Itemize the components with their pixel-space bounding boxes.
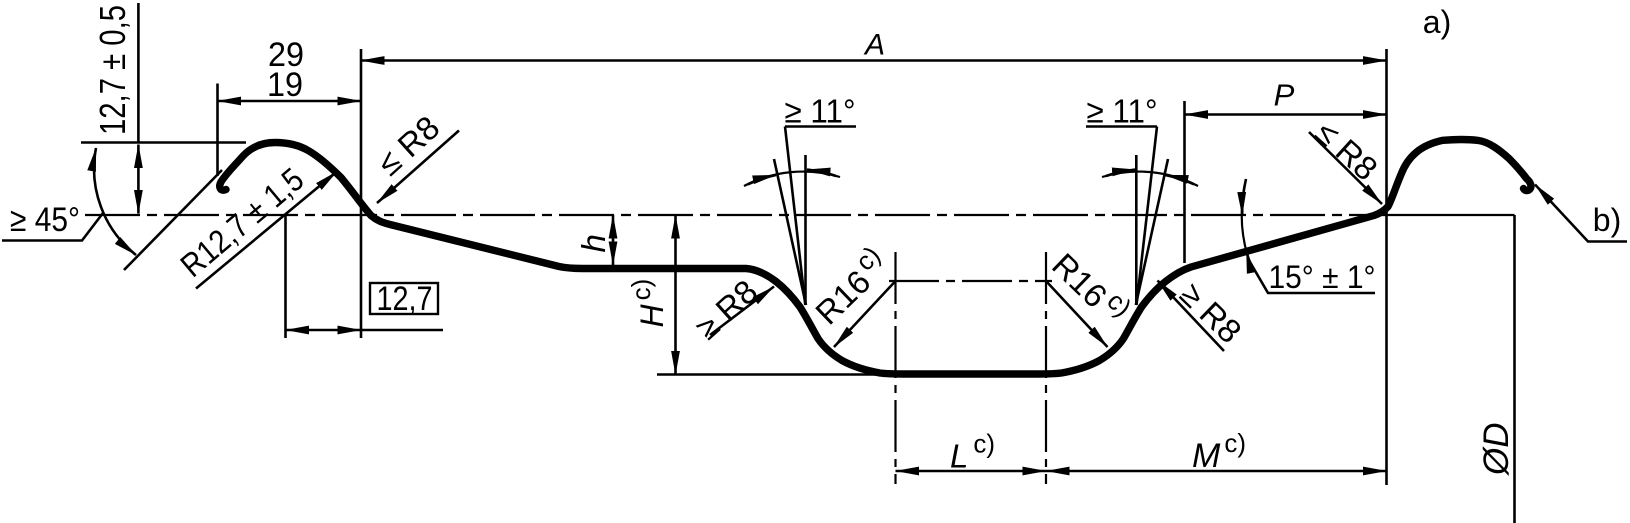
rim profile thick curve — [220, 140, 1531, 374]
svg-text:Lc): Lc) — [950, 429, 995, 475]
left >=11 vertical leg — [804, 155, 807, 305]
leader >=R8 left (well) — [710, 287, 774, 336]
right >=11 vertical leg — [1135, 155, 1138, 305]
svg-text:R16c): R16c) — [1045, 241, 1138, 333]
svg-text:12,7: 12,7 — [377, 280, 433, 318]
right extension line at rim edge x=1386.5 — [1385, 49, 1388, 485]
svg-text:Hc): Hc) — [626, 279, 670, 328]
right >=11 leader — [1137, 127, 1158, 306]
right >=11 arc — [1102, 172, 1198, 186]
svg-text:15° ± 1°: 15° ± 1° — [1269, 259, 1376, 295]
flange top reference line — [81, 141, 246, 144]
45 deg flange line — [124, 170, 222, 270]
dim A dimension line — [361, 59, 1387, 62]
left extension line at rim edge x=361 — [360, 49, 363, 338]
left >=11 flank leg — [774, 159, 806, 305]
well bottom reference line — [657, 373, 880, 376]
left >=11 arrow on vertical — [807, 170, 836, 176]
dim H dimension line — [674, 215, 677, 375]
right >=11 arrow on vertical — [1106, 170, 1136, 176]
left >=11 arrow on flank — [748, 175, 776, 184]
leader R16 left — [834, 281, 896, 347]
svg-text:a): a) — [1423, 4, 1451, 40]
diameter D line — [1513, 215, 1516, 523]
45 deg angle arc with arrows — [94, 148, 136, 255]
15 deg angle arc — [1242, 184, 1249, 260]
leader R16 right — [1046, 281, 1108, 347]
svg-text:19: 19 — [267, 66, 303, 104]
left >=11 arc — [744, 172, 840, 186]
leader for >=45 label — [2, 213, 103, 241]
15 deg angle arc top arrow — [1242, 179, 1246, 216]
svg-text:≥ R8: ≥ R8 — [688, 272, 764, 346]
leader <=R8 right — [1309, 132, 1382, 204]
right >=11 label underline — [1086, 125, 1157, 128]
svg-text:b): b) — [1593, 202, 1621, 238]
rim diameter reference line to D line — [1388, 214, 1515, 216]
svg-text:≥ 45°: ≥ 45° — [10, 201, 80, 239]
svg-text:ØD: ØD — [1477, 423, 1516, 477]
svg-text:R16c): R16c) — [803, 240, 896, 332]
svg-text:R12,7 ± 1,5: R12,7 ± 1,5 — [173, 160, 310, 283]
boxed dim 12,7 line to box — [361, 329, 443, 332]
dim 12,7+-0,5 vertical extension — [137, 3, 140, 143]
svg-text:Mc): Mc) — [1192, 428, 1246, 475]
dim P dimension line — [1185, 113, 1387, 116]
leader >=R8 right (well) — [1158, 281, 1225, 352]
boxed dim 12,7 dimension line — [286, 329, 362, 332]
box for 12,7 — [370, 283, 438, 314]
svg-text:≤ R8: ≤ R8 — [370, 108, 446, 182]
svg-text:A: A — [863, 29, 885, 62]
centre line (dash-dot) — [85, 214, 1388, 216]
well centre mark vertical left (dash-dot) — [894, 252, 896, 484]
leader b) — [1535, 185, 1627, 242]
well centre mark vertical right (dash-dot) — [1045, 252, 1047, 484]
dim 12,7+-0,5 dimension line with arrows — [137, 145, 140, 214]
right >=11 flank leg — [1136, 159, 1168, 305]
dim L dimension line — [896, 470, 1047, 473]
leader <=R8 left — [377, 131, 459, 204]
svg-text:≥ 11°: ≥ 11° — [785, 93, 856, 130]
15 deg angle arc bottom arrow — [1246, 250, 1249, 263]
dim h dimension line — [612, 215, 615, 265]
left >=11 label underline — [785, 125, 856, 128]
svg-text:12,7 ± 0,5: 12,7 ± 0,5 — [92, 5, 133, 135]
dim M dimension line — [1046, 470, 1387, 473]
svg-text:≤ R8: ≤ R8 — [1309, 113, 1385, 187]
dim P extension line — [1183, 101, 1186, 263]
svg-text:P: P — [1274, 78, 1295, 113]
svg-text:h: h — [575, 234, 612, 252]
dim 29/19 dimension line — [218, 100, 362, 103]
well centre mark horizontal (dash-dot) — [889, 280, 1052, 282]
boxed dim 12,7 left extension — [284, 216, 287, 339]
15 deg label leader — [1249, 260, 1375, 293]
left >=11 leader — [785, 127, 805, 306]
right >=11 arrow on flank — [1165, 175, 1194, 184]
dim 29/19 left extension line — [216, 84, 219, 177]
svg-text:≥ 11°: ≥ 11° — [1087, 93, 1158, 130]
leader R12,7 +- 1,5 — [196, 172, 337, 289]
